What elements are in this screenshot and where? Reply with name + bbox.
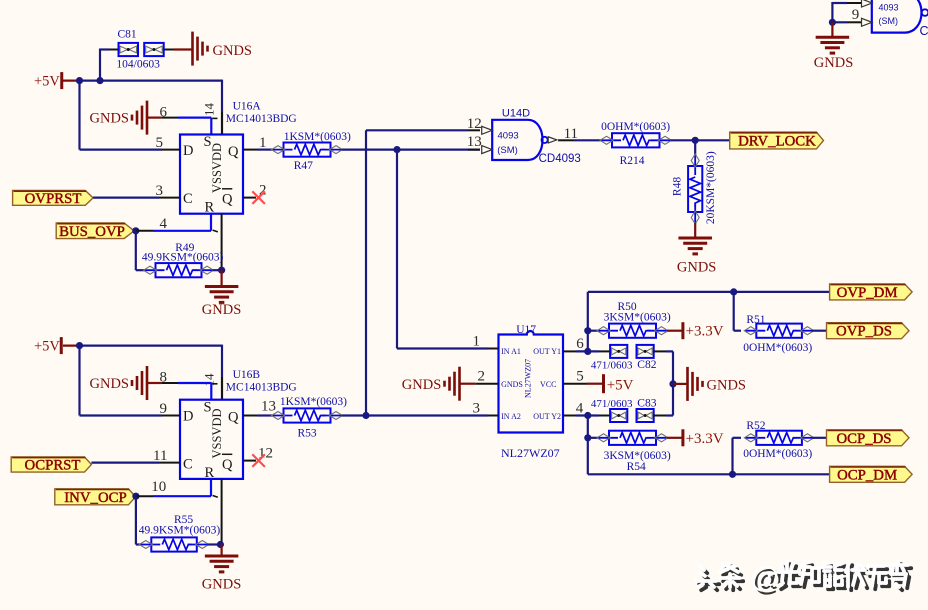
svg-text:NL27WZ07: NL27WZ07 [501,446,560,460]
port INV_OCP [55,489,136,505]
U17 inner pin names [501,347,561,421]
svg-text:R54: R54 [627,461,646,473]
power +3.3V at R50 [667,322,724,340]
capacitor C82 [599,345,666,358]
wire U17.4 node [576,412,599,474]
svg-text:NL27WZ07: NL27WZ07 [523,359,532,398]
pin U17.6 [563,336,584,352]
svg-text:Q: Q [228,144,239,160]
pin U16A.7 VSS [221,214,223,271]
op-amp U16B box (MC14013BDG flip-flop) [180,400,243,479]
wire U16A Q to R47 [257,149,273,151]
svg-text:R47: R47 [294,160,313,172]
svg-text:+3.3V: +3.3V [686,431,724,447]
svg-text:OCP_DM: OCP_DM [837,467,897,483]
svg-text:(SM): (SM) [497,145,518,156]
resistor R47 [272,143,343,157]
svg-text:R48: R48 [672,177,684,196]
ground GNDS right of C81 [174,32,252,66]
svg-text:GNDS: GNDS [202,577,241,593]
resistor R52 [744,431,814,445]
ground GNDS under R48 [677,238,716,276]
wire BUS_OVP to U16A.4 R [132,214,218,235]
wire OCP_DM net [588,471,830,478]
pin fragment input 9 [832,7,872,27]
svg-text:3: 3 [473,401,481,417]
svg-text:471/0603: 471/0603 [591,360,633,372]
pin U16A.6 S wire [160,105,218,135]
U16B pin letters [183,400,239,482]
port BUS_OVP [56,223,134,239]
wire riser to U16B Q net [365,130,367,415]
svg-text:C: C [920,24,928,38]
svg-text:U14D: U14D [502,108,530,120]
port OVPRST [13,191,94,206]
watermark 头条 @光知能伏无弯 [696,561,911,597]
wire U17.6 node [576,292,599,355]
ground GNDS at U16A pin 6 [90,101,162,135]
pin U14D.11 output [548,126,601,143]
ground GNDS under U16A [202,287,241,319]
pin U16A.5 D [156,135,181,151]
pin U14D.13 input triangle [467,134,493,154]
resistor R50 [588,324,668,338]
power +5V at U17.5 [587,374,634,393]
svg-text:3KSM*(0603): 3KSM*(0603) [604,312,671,324]
svg-text:U17: U17 [516,324,536,336]
svg-text:1KSM*(0603): 1KSM*(0603) [284,131,351,143]
ground GNDS top right [814,37,853,71]
svg-text:104/0603: 104/0603 [116,59,160,71]
junction R55/VSS to ground [208,541,224,556]
svg-text:OCPRST: OCPRST [25,458,81,474]
svg-text:471/0603: 471/0603 [591,398,633,410]
svg-text:6: 6 [160,105,168,121]
wire +5V rail to U16B [76,342,222,416]
U14D output bubble [542,137,548,143]
svg-text:1KSM*(0603): 1KSM*(0603) [280,396,347,408]
svg-text:VSSVDD: VSSVDD [210,143,224,193]
svg-text:49.9KSM*(0603): 49.9KSM*(0603) [139,525,221,537]
junction R49/VSS to ground [213,267,226,287]
pin U16B.13 Q [243,399,276,416]
svg-text:IN A2: IN A2 [501,412,521,421]
wire R52 to OCP_DS [812,437,827,439]
svg-text:R: R [205,465,215,481]
buffer U17 NL27WZ07 box [499,331,564,432]
wire C83 to ground node [666,384,673,416]
wire to R51 [734,292,741,331]
op-amp U16A box (MC14013BDG flip-flop) [180,135,243,214]
svg-text:@: @ [750,561,779,594]
resistor R54 [588,431,668,445]
svg-text:D: D [183,143,193,159]
pin U17.2 [475,369,498,385]
svg-text:CD4093: CD4093 [539,153,581,165]
svg-text:(SM): (SM) [879,16,899,26]
svg-text:BUS_OVP: BUS_OVP [59,224,125,240]
nand gate fragment 4093 (top right, clipped) [872,0,922,33]
svg-text:C: C [183,457,193,473]
svg-text:IN A1: IN A1 [501,347,521,356]
svg-text:OVPRST: OVPRST [25,191,82,207]
wire INV_OCP to U16B.10 R [132,479,218,500]
pin U16A.3 C [156,183,181,199]
pin U17.5 [563,369,587,385]
svg-text:+5V: +5V [34,74,60,90]
resistor R51 [744,324,814,338]
svg-text:13: 13 [467,134,482,150]
wire +5V rail to U16A [76,49,222,150]
pin U16B.12 /Q with no-connect X [243,446,273,467]
svg-text:R53: R53 [298,428,317,440]
wire U16B Q to R53 [257,414,273,416]
wire OCPRST to U16B.11 [91,462,159,464]
svg-text:49.9KSM*(0603): 49.9KSM*(0603) [142,252,224,264]
resistor R55 [139,537,209,551]
svg-text:C: C [183,191,193,207]
svg-text:0OHM*(0603): 0OHM*(0603) [743,342,812,354]
svg-text:MC14013BDG: MC14013BDG [226,113,297,125]
capacitor C81 [110,43,175,56]
svg-text:R52: R52 [746,420,765,432]
svg-text:C81: C81 [118,29,137,41]
wire BUS_OVP down to R49 [135,231,137,270]
resistor R49 [144,263,214,277]
fragment output bubble [922,9,928,16]
wire R47 to U14D.13 and riser [342,146,489,349]
pin fragment input 8 [832,0,872,7]
power +5V (top left) [34,72,80,89]
port DRV_LOCK [730,132,824,149]
svg-text:GNDS: GNDS [213,43,252,59]
pin U16A.2 /Q with no-connect X [243,183,267,204]
wire tying inputs to ground [829,2,836,37]
wire R53 to riser junction [342,412,489,419]
pin U17.4 [563,401,584,417]
svg-text:OVP_DS: OVP_DS [836,324,892,340]
pin U17.3 [473,401,499,417]
svg-text:U16B: U16B [233,369,261,381]
svg-text:14: 14 [202,103,217,117]
wire R55 left lead [136,543,142,545]
port OCP_DS [827,430,910,446]
wire OVPRST to U16A.3 [93,197,159,199]
svg-text:GNDS: GNDS [90,376,129,392]
pin U16B.11 C [153,448,180,464]
svg-text:OCP_DS: OCP_DS [836,431,891,447]
svg-text:5: 5 [576,369,584,385]
svg-text:GNDS: GNDS [814,55,853,71]
svg-text:C83: C83 [637,398,656,410]
port OVP_DM [830,284,913,300]
pin U17.1 [473,334,499,350]
svg-text:6: 6 [576,336,584,352]
port OCP_DM [830,466,913,482]
svg-text:Q: Q [228,410,239,426]
pin U16B.9 D [160,401,181,417]
svg-text:R: R [205,200,215,216]
svg-text:12: 12 [467,116,482,132]
svg-text:0OHM*(0603): 0OHM*(0603) [743,448,812,460]
resistor R214 [600,133,672,147]
wire R51 to OVP_DS [812,330,827,332]
svg-text:20KSM*(0603): 20KSM*(0603) [705,151,717,224]
svg-text:OVP_DM: OVP_DM [837,285,898,301]
svg-text:GNDS: GNDS [501,380,523,389]
wire R214 to DRV_LOCK [671,137,730,144]
svg-text:DRV_LOCK: DRV_LOCK [738,134,816,150]
ground GNDS right of C82/C83 [673,367,746,401]
power +5V (left, U16B) [34,337,80,354]
svg-text:2: 2 [478,369,486,385]
svg-text:9: 9 [160,401,168,417]
U16A pin letters [183,134,239,216]
svg-text:1: 1 [473,334,481,350]
wire R49 left lead [136,269,146,271]
svg-text:5: 5 [156,135,164,151]
svg-text:4093: 4093 [498,131,519,142]
svg-text:GNDS: GNDS [402,377,441,393]
wire junction down to R48 [694,140,696,155]
svg-text:0OHM*(0603): 0OHM*(0603) [601,121,670,133]
pin U16B.8 S wire [160,370,218,400]
svg-text:4: 4 [160,216,168,232]
svg-text:GNDS: GNDS [90,111,129,127]
svg-text:+3.3V: +3.3V [686,324,724,340]
svg-text:D: D [183,409,193,425]
svg-text:13: 13 [261,399,276,415]
pin U16A.1 Q [243,135,267,151]
pin U16A.14 VDD [202,103,223,135]
wire INV_OCP down to R55 [135,496,137,544]
pin U14D.12 input triangle [366,116,492,134]
svg-text:R51: R51 [746,314,765,326]
svg-text:R214: R214 [620,155,645,167]
port OVP_DS [827,323,910,339]
wire to R52 [733,438,742,475]
svg-text:C82: C82 [637,359,656,371]
wire OVP_DM net [588,288,830,295]
svg-text:+5V: +5V [34,339,60,355]
ground GNDS under U16B [202,556,241,593]
svg-text:GNDS: GNDS [202,302,241,318]
svg-text:10: 10 [151,479,166,495]
svg-text:VCC: VCC [540,380,556,389]
svg-text:U16A: U16A [233,101,262,113]
ground GNDS at U16B pin 8 [90,366,162,400]
svg-text:4: 4 [576,401,584,417]
svg-text:9: 9 [852,7,860,23]
nand gate U14D 4093 [492,120,542,160]
svg-text:GNDS: GNDS [707,378,746,394]
resistor R53 [272,408,343,422]
svg-text:OUT Y2: OUT Y2 [533,412,561,421]
svg-text:OUT Y1: OUT Y1 [533,347,561,356]
wire C82 to ground node [666,351,677,387]
svg-text:8: 8 [160,370,168,386]
svg-text:MC14013BDG: MC14013BDG [226,382,297,394]
port OCPRST [11,457,91,472]
power +3.3V at R54 [667,429,724,447]
capacitor C83 [599,409,666,422]
svg-text:+5V: +5V [607,378,634,394]
pin U16B.7 VSS [221,479,223,545]
svg-text:VSSVDD: VSSVDD [210,408,224,458]
resistor R48 (vertical) [688,154,702,224]
ground GNDS at U17 pin 2 [402,367,476,401]
pin U16B.14 VDD [202,373,223,400]
svg-text:4093: 4093 [879,3,899,13]
wire R48 to ground [694,223,696,238]
svg-text:INV_OCP: INV_OCP [64,490,126,506]
svg-text:GNDS: GNDS [677,260,716,276]
